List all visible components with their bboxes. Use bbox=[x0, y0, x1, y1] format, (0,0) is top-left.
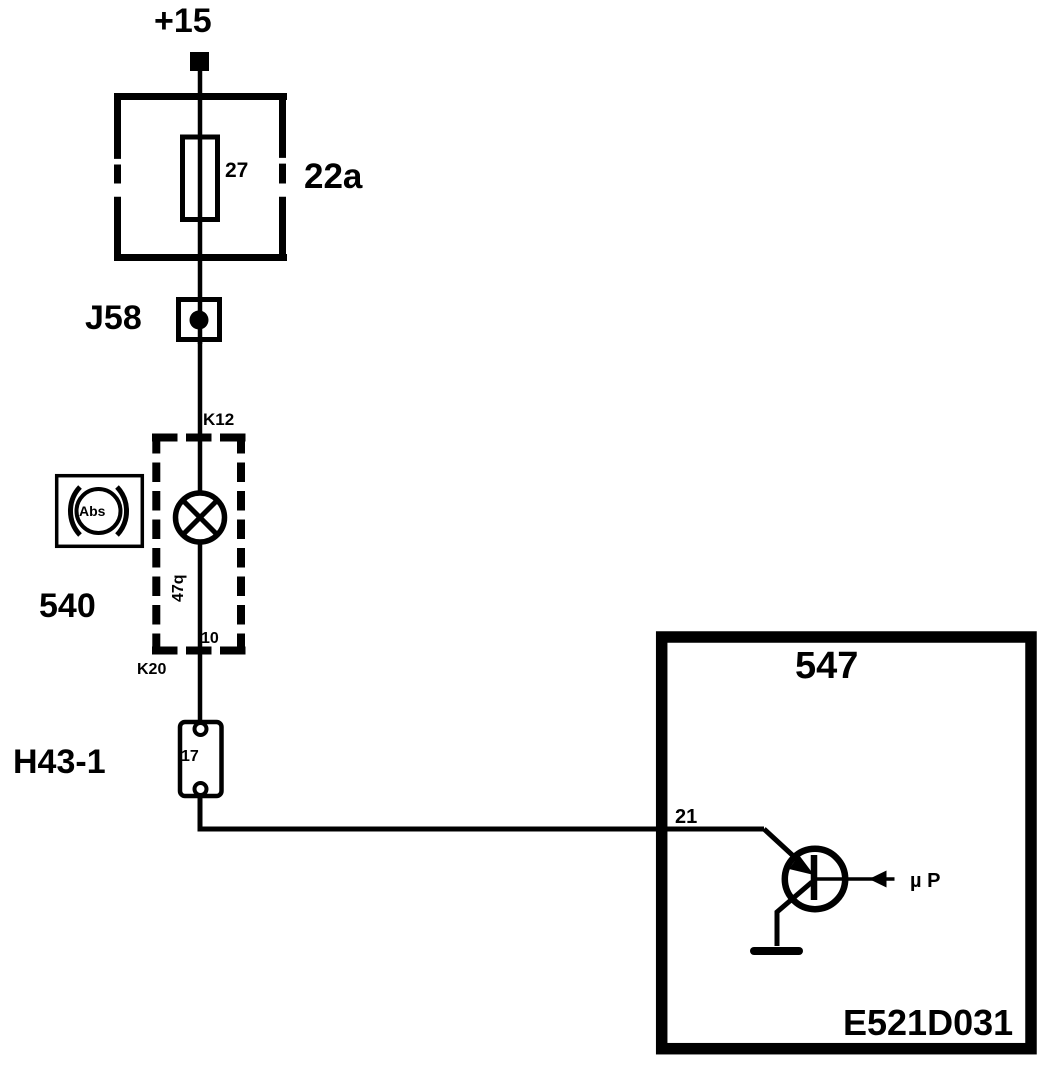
svg-text:21: 21 bbox=[675, 806, 697, 828]
label 540 bbox=[39, 587, 96, 625]
wire base diagonal bbox=[764, 829, 802, 864]
control unit box 547 bbox=[662, 637, 1031, 1049]
wire J58 to lamp box bbox=[198, 342, 203, 440]
lamp housing dashed box bbox=[152, 434, 246, 653]
net label +15 bbox=[154, 2, 212, 40]
svg-text:K20: K20 bbox=[137, 661, 166, 678]
label E521D031 bbox=[843, 1002, 1013, 1043]
pin label K20 bbox=[137, 661, 166, 678]
wire fuse to connector J58 bbox=[198, 137, 203, 344]
svg-text:17: 17 bbox=[181, 748, 199, 765]
ground bbox=[754, 947, 799, 955]
pin label K12 bbox=[203, 410, 234, 429]
svg-text:27: 27 bbox=[225, 159, 248, 182]
transistor bbox=[785, 849, 895, 909]
wire terminal to fuse box bbox=[198, 71, 203, 137]
svg-text:+15: +15 bbox=[154, 2, 212, 40]
svg-text:E521D031: E521D031 bbox=[843, 1002, 1013, 1043]
svg-text:22a: 22a bbox=[304, 157, 363, 196]
pin label 21 bbox=[675, 806, 697, 828]
label 547 bbox=[795, 645, 858, 687]
arrow to microprocessor bbox=[869, 871, 887, 888]
connector J58 bbox=[179, 300, 220, 340]
label 47q bbox=[170, 574, 187, 602]
power terminal +15 bbox=[190, 52, 209, 71]
svg-text:µ P: µ P bbox=[910, 870, 940, 892]
svg-text:H43-1: H43-1 bbox=[13, 743, 106, 781]
svg-text:547: 547 bbox=[795, 645, 858, 687]
fuse 27 bbox=[183, 137, 218, 220]
pin label 10 bbox=[201, 630, 219, 647]
label J58 bbox=[85, 299, 142, 337]
wire lamp to connector H43-1 bbox=[198, 540, 203, 724]
label 27 bbox=[225, 159, 248, 182]
wire into lamp bbox=[198, 437, 203, 495]
connector H43-1 bbox=[180, 722, 222, 796]
fuse holder box 22a bbox=[114, 93, 287, 261]
svg-text:540: 540 bbox=[39, 587, 96, 625]
svg-text:K12: K12 bbox=[203, 410, 234, 429]
emitter wire bbox=[777, 882, 812, 946]
svg-text:47q: 47q bbox=[170, 574, 187, 602]
pin label 17 bbox=[181, 748, 199, 765]
label uP bbox=[910, 870, 940, 892]
svg-text:Abs: Abs bbox=[79, 503, 106, 519]
warning lamp bbox=[176, 493, 225, 542]
wire H43-1 to control unit 547 bbox=[200, 795, 764, 829]
label 22a bbox=[304, 157, 363, 196]
ABS indicator icon bbox=[57, 476, 143, 547]
label H43-1 bbox=[13, 743, 106, 781]
svg-text:J58: J58 bbox=[85, 299, 142, 337]
svg-text:10: 10 bbox=[201, 630, 219, 647]
